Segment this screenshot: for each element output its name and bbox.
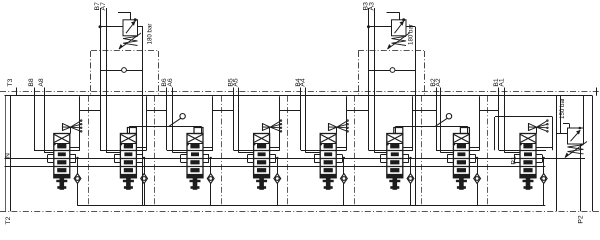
svg-text:A3: A3 (368, 2, 375, 11)
svg-text:A7: A7 (100, 2, 107, 11)
valve body section 3 (187, 134, 204, 178)
check valve section 7 (474, 157, 481, 206)
wire work port line A4 (299, 78, 320, 153)
wire right port bridge section 5 (336, 96, 368, 150)
svg-text:B8: B8 (28, 78, 35, 87)
wire work port line A6 (167, 78, 187, 153)
svg-text:A2: A2 (435, 78, 442, 87)
svg-text:A5: A5 (232, 78, 239, 87)
label 150 bar (559, 98, 566, 119)
svg-text:A8: A8 (38, 78, 45, 87)
spring return section 2 (123, 178, 134, 190)
lever actuator (fan) section 5 (329, 120, 349, 134)
wire right port bracket section 7 (469, 155, 475, 163)
check valve section 8 (540, 157, 547, 206)
wire right port bracket section 4 (270, 155, 276, 163)
node N (4, 153, 11, 158)
relief valve 150bar main (556, 96, 587, 212)
wire right port bracket section 3 (203, 155, 209, 163)
lever actuator (fan) section 1 (62, 120, 82, 134)
wire left port bracket section 5 (314, 155, 320, 163)
wire right port stub section 8 (536, 147, 553, 149)
relief valve 180bar right (367, 12, 416, 205)
svg-text:150 bar: 150 bar (559, 98, 566, 119)
wire work port line A3 (368, 2, 387, 153)
wire right port bracket section 8 (536, 155, 543, 163)
wire top boundary line (5, 95, 593, 97)
node P1 (510, 156, 517, 165)
svg-text:A4: A4 (299, 78, 306, 87)
valve body section 2 (120, 134, 136, 178)
spring return section 7 (456, 178, 467, 190)
wire left port bracket section 3 (181, 155, 188, 163)
wire dash-dot bottom boundary (0, 211, 600, 213)
wire work port line A7 (100, 2, 121, 153)
wire work port line A5 (232, 78, 253, 153)
wire section divider 7 (487, 96, 489, 206)
svg-text:T2: T2 (5, 216, 12, 224)
spring return section 8 (523, 178, 534, 190)
valve body section 6 (386, 134, 403, 178)
wire second bus line (5, 166, 546, 168)
wire left port bracket section 8 (514, 155, 520, 163)
wire right port bracket section 6 (403, 155, 409, 163)
wire section divider 5 (354, 96, 356, 206)
wire work port line B1 (493, 78, 546, 150)
wire section divider 6 (421, 96, 423, 206)
valve body section 5 (320, 134, 337, 178)
svg-text:A1: A1 (498, 78, 505, 87)
label 180 bar left (147, 24, 154, 45)
wire work port line B6 (161, 78, 213, 150)
wire section divider 1 (88, 96, 90, 206)
wire work port line B4 (295, 78, 346, 150)
check valve section 5 (341, 157, 348, 206)
svg-text:P2: P2 (577, 215, 584, 224)
valve body section 8 (520, 134, 537, 178)
lever actuator (bar+knob) sections 6-7 (394, 114, 470, 134)
wire dash-dot top boundary centerline (0, 91, 600, 93)
svg-text:P1: P1 (510, 156, 517, 165)
check valve section 6 (407, 157, 414, 206)
wire section divider 2 (154, 96, 156, 206)
wire work port line B2 (430, 78, 480, 150)
relief valve 180bar left (99, 12, 144, 205)
svg-text:N: N (4, 153, 11, 158)
valve body section 1 (53, 134, 70, 178)
wire work port line A1 (498, 78, 520, 153)
wire right port bracket section 2 (136, 155, 142, 163)
wire right port bridge section 6 (403, 96, 436, 150)
node T2 (5, 216, 12, 224)
spring return section 1 (56, 178, 67, 190)
wire work port line A2 (435, 78, 454, 153)
wire right port bridge section 4 (270, 96, 301, 150)
wire work port line A8 (38, 78, 54, 153)
boundary dash box left relief (91, 51, 159, 96)
wire right port bridge section 2 (136, 96, 167, 150)
wire N bus line (5, 158, 586, 160)
wire work port line B3 (362, 2, 413, 151)
check valve section 2 (141, 157, 148, 206)
svg-text:180 bar: 180 bar (407, 24, 414, 45)
wire left border vertical (10, 96, 12, 212)
spring return section 5 (323, 178, 334, 190)
node T3 (7, 78, 17, 95)
wire section divider 3 (221, 96, 223, 206)
boundary dash box right relief (358, 51, 425, 96)
spring return section 3 (190, 178, 201, 190)
check valve section 4 (274, 157, 281, 206)
wire right port bridge section 7 (469, 96, 499, 150)
wire left port bracket section 1 (48, 155, 54, 163)
wire left port bracket section 2 (114, 155, 120, 163)
lever actuator (fan) section 4 (262, 120, 282, 134)
wire left port bracket section 7 (447, 155, 453, 163)
wire right border vertical (592, 96, 594, 212)
wire work port line B8 (28, 78, 80, 150)
lever actuator (fan) section 8 (529, 120, 549, 134)
boundary box inlet section 8 (495, 117, 553, 151)
wire left port bracket section 4 (248, 155, 254, 163)
wire section divider 4 (287, 96, 289, 206)
wire outer left edge line (5, 96, 7, 212)
svg-text:T3: T3 (7, 78, 14, 86)
valve body section 7 (453, 134, 470, 178)
wire right port bridge section 3 (203, 96, 234, 150)
wire work port line B5 (227, 78, 279, 150)
wire bottom collector line (78, 205, 546, 207)
spring return section 6 (389, 178, 400, 190)
wire right port bracket section 5 (336, 155, 342, 163)
node T1 tick top right (596, 88, 598, 96)
check valve section 3 (207, 157, 214, 206)
svg-text:A6: A6 (167, 78, 174, 87)
svg-text:180 bar: 180 bar (147, 24, 154, 45)
spring return section 4 (256, 178, 267, 190)
valve body section 4 (253, 134, 270, 178)
wire right port bridge section 1 (70, 96, 100, 150)
lever actuator (bar+knob) sections 2-3 (127, 114, 203, 134)
label 180 bar right (407, 24, 414, 45)
wire left port bracket section 6 (381, 155, 387, 163)
wire work port line B7 (94, 2, 147, 151)
check valve section 1 (74, 157, 81, 206)
node P2 (577, 215, 584, 224)
wire right port bracket section 1 (70, 155, 76, 163)
